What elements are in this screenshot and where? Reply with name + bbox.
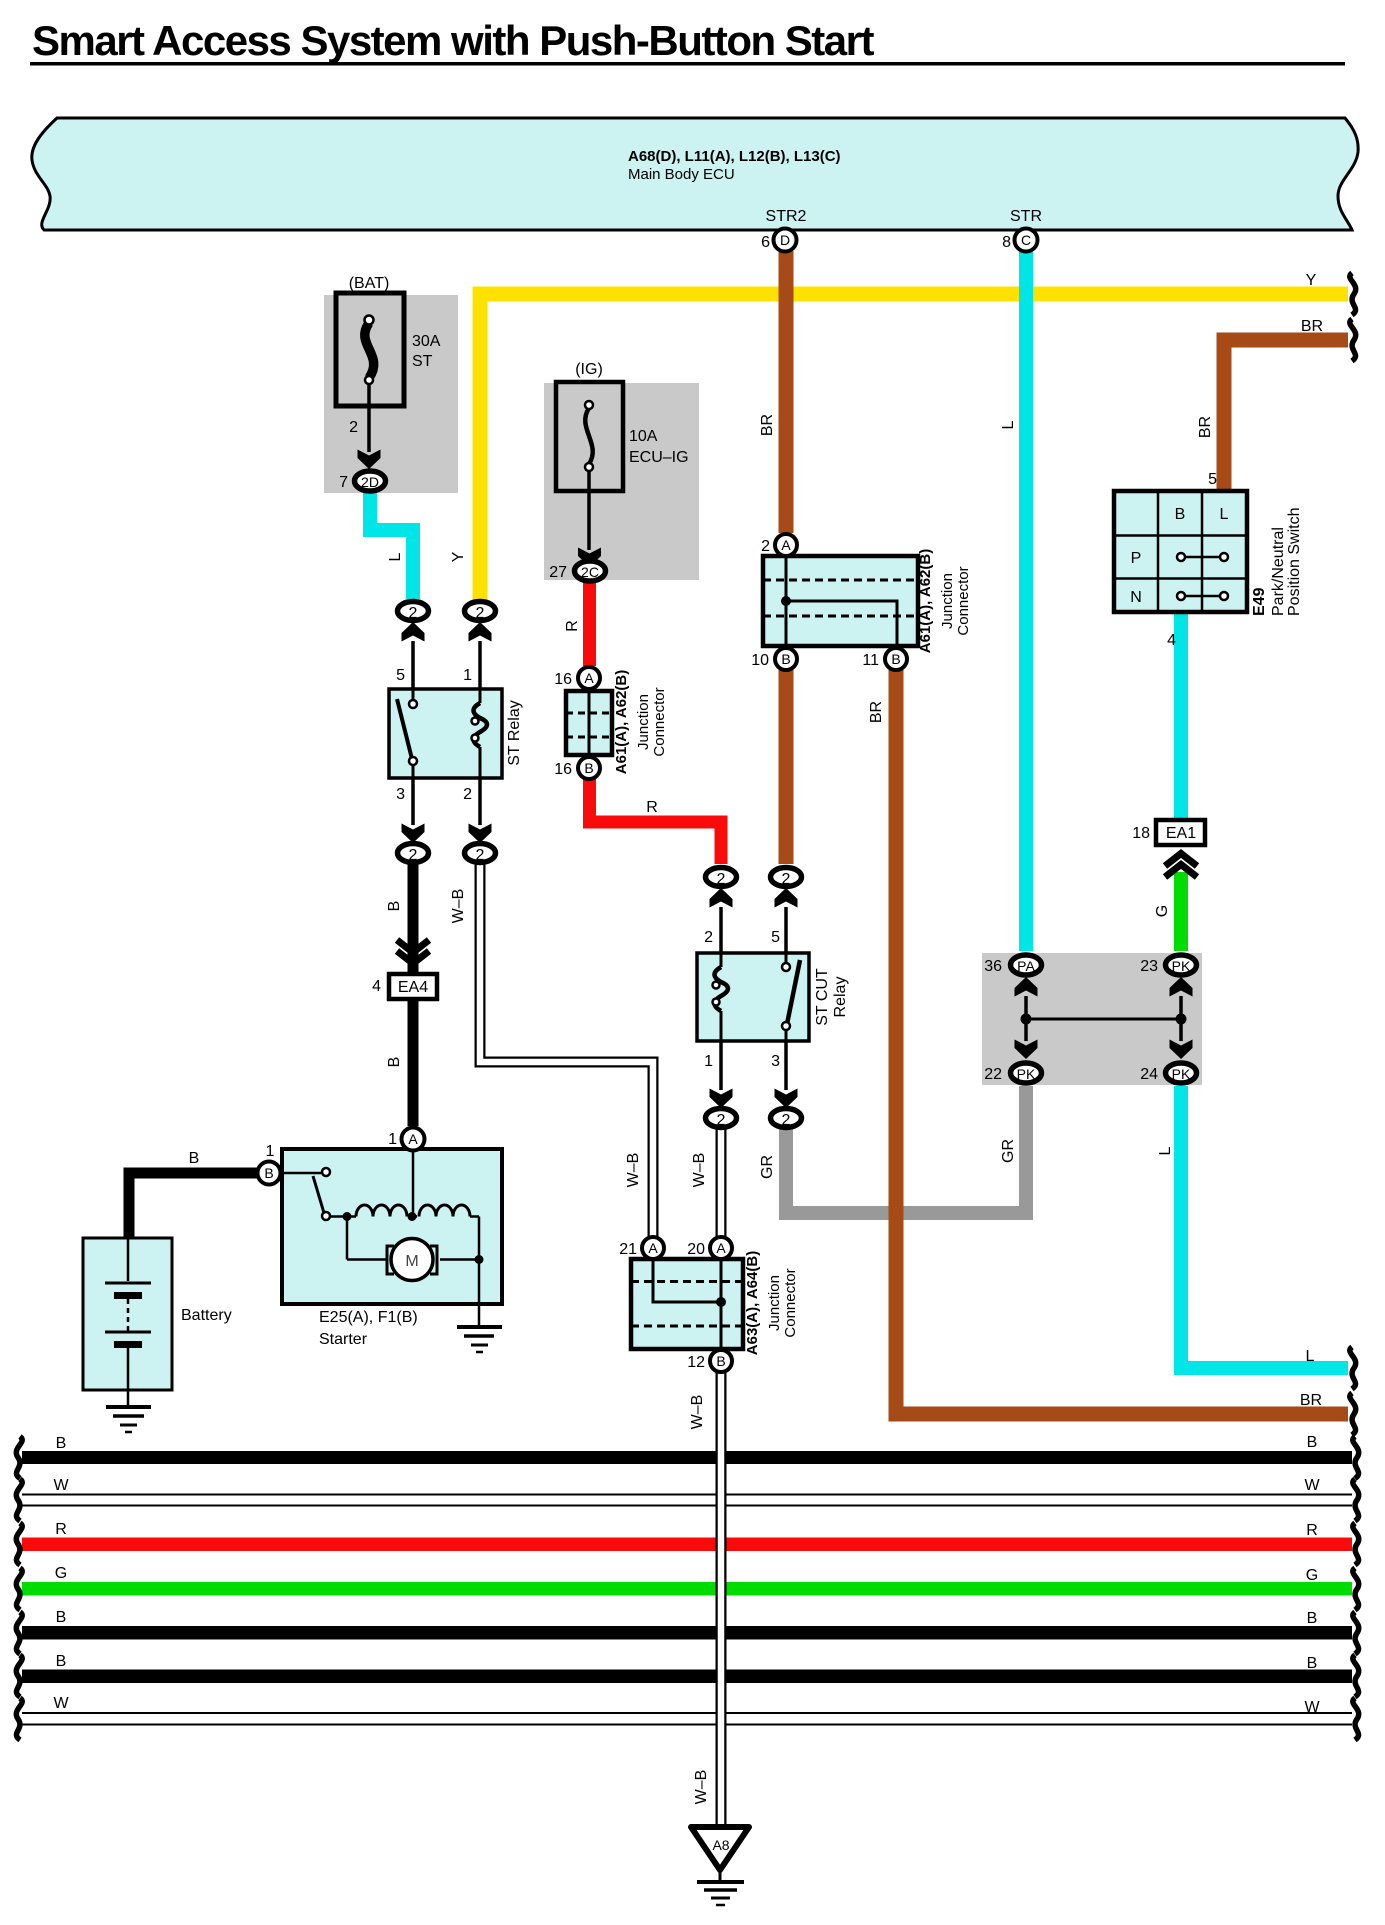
svg-text:GR: GR [759, 1155, 776, 1179]
svg-text:BR: BR [1301, 318, 1323, 335]
wire BR junction B11 down and right [896, 670, 1348, 1414]
svg-text:1: 1 [463, 667, 472, 684]
svg-text:27: 27 [549, 564, 567, 581]
fuse 30A ST (BAT) [336, 275, 441, 452]
svg-text:N: N [1130, 589, 1142, 606]
switch E49 Park/Neutral Position Switch [1114, 471, 1303, 649]
wire W-B B12 to ground A8 [716, 1372, 727, 1826]
svg-text:6: 6 [761, 234, 770, 251]
svg-text:PK: PK [1172, 958, 1191, 974]
svg-text:EA1: EA1 [1166, 825, 1196, 842]
svg-text:1: 1 [266, 1143, 275, 1160]
ground under starter [457, 1325, 502, 1329]
arrow into 2C [578, 548, 601, 568]
svg-text:Connector: Connector [651, 687, 668, 756]
svg-text:A63(A), A64(B): A63(A), A64(B) [744, 1251, 761, 1355]
svg-text:B: B [781, 651, 790, 667]
svg-text:2: 2 [409, 605, 418, 622]
svg-text:L: L [1000, 420, 1017, 429]
connector 7 2D [355, 471, 386, 491]
svg-text:5: 5 [396, 667, 405, 684]
svg-text:BR: BR [759, 414, 776, 436]
svg-text:2: 2 [349, 419, 358, 436]
connector 1 B starter [258, 1162, 281, 1185]
connector 2 A [775, 534, 797, 556]
connector 24 PK [1166, 1063, 1197, 1083]
svg-text:A: A [584, 670, 594, 686]
connector 1 A starter [402, 1128, 425, 1151]
svg-text:D: D [780, 232, 790, 248]
wire BR from banner D to junction A [779, 251, 794, 533]
svg-text:B: B [264, 1165, 273, 1181]
svg-text:4: 4 [372, 978, 381, 995]
bus R [22, 1538, 1352, 1552]
svg-text:EA4: EA4 [398, 979, 428, 996]
wire GR gray ST CUT pin3 to PK22 [786, 1086, 1026, 1213]
svg-text:B: B [1307, 1610, 1318, 1627]
svg-text:ECU–IG: ECU–IG [629, 449, 689, 466]
arrow into 2D [358, 450, 381, 470]
junction connector A63(A),A64(B) [631, 1251, 799, 1355]
svg-text:A: A [408, 1131, 418, 1147]
svg-text:M: M [405, 1253, 418, 1270]
svg-text:8: 8 [1002, 234, 1011, 251]
connector 11 B [885, 648, 907, 670]
svg-text:W–B: W–B [693, 1770, 710, 1805]
svg-text:11: 11 [862, 652, 879, 669]
svg-text:STR: STR [1010, 208, 1042, 225]
wavy end BR bottom [1350, 1393, 1356, 1435]
connector 27 2C [575, 561, 606, 581]
svg-text:A: A [648, 1240, 658, 1256]
svg-text:18: 18 [1132, 825, 1150, 842]
svg-text:PA: PA [1017, 958, 1035, 974]
svg-text:E49: E49 [1251, 587, 1268, 616]
svg-text:STR2: STR2 [766, 208, 807, 225]
connector 8 C banner [1015, 229, 1038, 252]
svg-text:24: 24 [1140, 1066, 1158, 1083]
wire L cyan from 2D to ST relay [370, 490, 413, 599]
svg-text:B: B [1307, 1655, 1318, 1672]
svg-text:2: 2 [704, 929, 713, 946]
svg-text:Relay: Relay [832, 977, 849, 1018]
wire B black ST relay to EA4 [408, 862, 419, 976]
bus W1 [22, 1494, 1352, 1507]
wire L cyan PK24 down right [1181, 1086, 1348, 1368]
Main Body ECU banner A68(D) L11(A) L12(B) L13(C) [32, 118, 1358, 230]
svg-text:W–B: W–B [450, 889, 467, 924]
wire L cyan STR from banner C to PA [1019, 251, 1033, 951]
connector 23 PK [1166, 955, 1197, 975]
svg-text:2: 2 [476, 847, 485, 864]
svg-text:2: 2 [782, 871, 791, 888]
svg-text:B: B [56, 1435, 67, 1452]
svg-text:3: 3 [396, 786, 405, 803]
relay ST CUT Relay [697, 929, 849, 1070]
PA/PK connector links [1015, 977, 1193, 1059]
svg-text:5: 5 [1208, 471, 1217, 488]
arrows and pins around ST CUT relay [710, 888, 733, 908]
svg-text:Connector: Connector [782, 1268, 799, 1337]
svg-text:W: W [1304, 1477, 1320, 1494]
svg-text:1: 1 [704, 1053, 713, 1070]
ground under battery [106, 1405, 151, 1409]
wire BR to E49 pin5 [1224, 340, 1348, 489]
connector 2 ovals around ST relay [398, 602, 429, 621]
svg-text:3: 3 [771, 1053, 780, 1070]
svg-text:12: 12 [687, 1354, 705, 1371]
bus B3 [22, 1670, 1352, 1684]
svg-text:36: 36 [984, 958, 1002, 975]
svg-text:ST CUT: ST CUT [814, 968, 831, 1026]
svg-text:W–B: W–B [691, 1153, 708, 1188]
wavy end L [1350, 1347, 1356, 1389]
connector 36 PA [1011, 955, 1042, 975]
svg-text:Main Body ECU: Main Body ECU [628, 166, 735, 183]
svg-text:2C: 2C [581, 564, 599, 580]
bus G [22, 1582, 1352, 1596]
svg-text:Junction: Junction [939, 573, 956, 629]
svg-text:R: R [1306, 1522, 1318, 1539]
svg-text:A61(A), A62(B): A61(A), A62(B) [917, 549, 934, 653]
wire BR junction B10 to ST CUT relay [779, 670, 794, 864]
svg-text:W: W [53, 1695, 69, 1712]
svg-text:2: 2 [717, 871, 726, 888]
wire L cyan E49 pin4 to EA1 [1174, 613, 1188, 819]
svg-text:Y: Y [450, 551, 467, 562]
svg-text:R: R [646, 799, 658, 816]
svg-text:BR: BR [868, 701, 885, 723]
bus B2 [22, 1626, 1352, 1640]
gray shade 30A fuse [324, 295, 458, 493]
svg-text:B: B [56, 1609, 67, 1626]
svg-text:W–B: W–B [689, 1395, 706, 1430]
wire W-B ST CUT pin1 to A20 [716, 1129, 727, 1237]
svg-text:16: 16 [554, 761, 572, 778]
svg-text:BR: BR [1300, 1392, 1322, 1409]
wire W-B ST relay pin2 to A21 [480, 862, 653, 1237]
svg-text:BR: BR [1197, 416, 1214, 438]
svg-text:R: R [55, 1521, 67, 1538]
bus B1 [22, 1451, 1352, 1464]
svg-text:A8: A8 [712, 1837, 729, 1853]
svg-text:Y: Y [1306, 272, 1317, 289]
svg-text:Position Switch: Position Switch [1286, 508, 1303, 617]
svg-text:10: 10 [751, 652, 769, 669]
svg-text:C: C [1021, 232, 1031, 248]
svg-text:5: 5 [771, 929, 780, 946]
svg-text:2: 2 [782, 1112, 791, 1129]
svg-text:B: B [1175, 506, 1186, 523]
svg-text:21: 21 [619, 1241, 637, 1258]
svg-text:(IG): (IG) [575, 361, 603, 378]
bus W2 [22, 1712, 1352, 1726]
wavy ends buses right [1353, 1437, 1359, 1479]
svg-text:1: 1 [388, 1131, 397, 1148]
svg-text:A68(D), L11(A), L12(B), L13(C): A68(D), L11(A), L12(B), L13(C) [628, 148, 841, 165]
svg-text:B: B [189, 1150, 200, 1167]
arrows and pins around ST relay [402, 622, 425, 642]
svg-text:B: B [1307, 1434, 1318, 1451]
svg-text:20: 20 [687, 1241, 705, 1258]
wire R red B16 to ST CUT relay [590, 779, 722, 864]
connector 6 D banner [774, 229, 797, 252]
svg-text:22: 22 [984, 1066, 1002, 1083]
junction connector A61(A),A62(B) small [566, 670, 668, 774]
svg-text:PK: PK [1172, 1066, 1191, 1082]
connector EA1 [1132, 820, 1205, 877]
svg-text:10A: 10A [629, 428, 658, 445]
svg-text:B: B [56, 1653, 67, 1670]
wavy end Y [1350, 273, 1356, 315]
svg-text:ST: ST [412, 353, 433, 370]
svg-text:2: 2 [463, 786, 472, 803]
junction connector A61(A),A62(B) top [763, 549, 972, 653]
ground A8 [691, 1827, 749, 1905]
svg-text:7: 7 [339, 474, 348, 491]
svg-text:B: B [891, 651, 900, 667]
svg-text:B: B [716, 1353, 725, 1369]
wire R red 2C to A16 [583, 582, 596, 666]
svg-text:P: P [1131, 550, 1142, 567]
svg-text:W–B: W–B [625, 1153, 642, 1188]
svg-text:B: B [584, 760, 593, 776]
svg-text:ST Relay: ST Relay [506, 700, 523, 766]
gray shade 10A fuse [544, 383, 699, 580]
svg-text:2: 2 [761, 538, 770, 555]
svg-text:G: G [55, 1565, 67, 1582]
svg-text:Smart Access System with Push-: Smart Access System with Push-Button Sta… [32, 17, 874, 64]
svg-text:E25(A), F1(B): E25(A), F1(B) [319, 1309, 418, 1326]
svg-text:2: 2 [717, 1112, 726, 1129]
svg-text:A: A [716, 1240, 726, 1256]
svg-text:(BAT): (BAT) [349, 275, 390, 292]
wavy ends buses left [16, 1437, 22, 1479]
svg-text:30A: 30A [412, 333, 441, 350]
svg-text:Junction: Junction [635, 694, 652, 750]
svg-text:L: L [1157, 1146, 1174, 1155]
svg-text:R: R [564, 620, 581, 632]
svg-text:B: B [386, 901, 403, 912]
connector 2 ovals around ST CUT relay [706, 868, 737, 887]
wire B black EA4 to starter A [408, 998, 419, 1126]
connector 16 B [578, 757, 600, 779]
connector 10 B [775, 648, 797, 670]
starter E25(A),F1(B) [282, 1149, 502, 1326]
fuse 10A ECU-IG (IG) [556, 361, 689, 550]
svg-text:G: G [1154, 905, 1171, 917]
svg-text:G: G [1306, 1567, 1318, 1584]
svg-text:2: 2 [476, 605, 485, 622]
connector 20 A [710, 1237, 732, 1259]
svg-text:Junction: Junction [766, 1275, 783, 1331]
svg-text:W: W [1304, 1699, 1320, 1716]
gray shade PA/PK connector [982, 953, 1202, 1085]
connector EA4 [372, 940, 437, 999]
connector 12 B [710, 1350, 732, 1372]
svg-text:16: 16 [554, 671, 572, 688]
svg-text:Connector: Connector [955, 566, 972, 635]
connector 16 A [578, 667, 600, 689]
wire G green EA1 to PK23 [1174, 872, 1188, 951]
connector 21 A [642, 1237, 664, 1259]
svg-text:GR: GR [1000, 1139, 1017, 1163]
svg-text:L: L [1220, 506, 1229, 523]
relay ST Relay [389, 667, 523, 803]
svg-text:2: 2 [409, 847, 418, 864]
svg-text:L: L [1306, 1348, 1315, 1365]
svg-text:Starter: Starter [319, 1331, 368, 1348]
svg-text:B: B [386, 1057, 403, 1068]
wavy end BR top [1350, 319, 1356, 361]
svg-text:23: 23 [1140, 958, 1158, 975]
svg-text:W: W [53, 1477, 69, 1494]
connector 22 PK [1011, 1063, 1042, 1083]
battery [83, 1238, 232, 1406]
svg-text:Park/Neutral: Park/Neutral [1270, 527, 1287, 616]
svg-text:2D: 2D [361, 474, 379, 490]
svg-text:A61(A), A62(B): A61(A), A62(B) [613, 670, 630, 774]
svg-text:4: 4 [1167, 632, 1176, 649]
wire Y yellow [480, 294, 1348, 600]
svg-text:Battery: Battery [181, 1307, 232, 1324]
wire B black battery to starter B [129, 1173, 258, 1240]
svg-text:L: L [387, 552, 404, 561]
svg-text:PK: PK [1017, 1066, 1036, 1082]
svg-text:A: A [781, 537, 791, 553]
